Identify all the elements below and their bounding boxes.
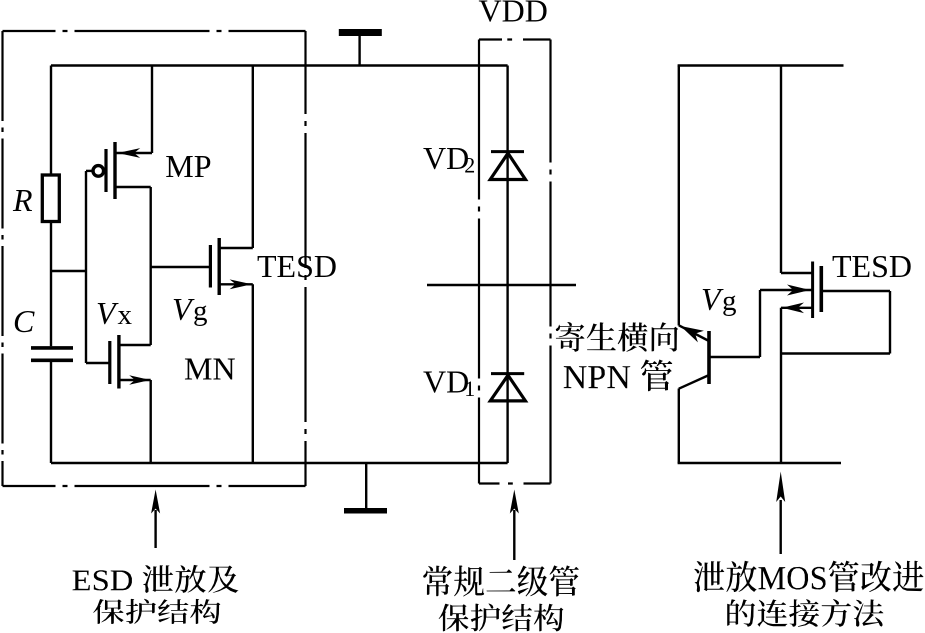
transistor TESD (right) source lead	[760, 289, 813, 291]
ground symbol (top, VDD tick) bar	[339, 29, 382, 36]
svg-text:TESD: TESD	[257, 248, 337, 284]
transistor TESD (right) gate bar	[819, 266, 823, 312]
transistor Q1 emitter arrow	[681, 326, 704, 342]
transistor TESD (right) source arrow	[787, 285, 810, 296]
transistor TESD (right) drain lead	[781, 272, 813, 274]
wire: MP gate stub to bubble	[86, 170, 92, 172]
wire: TESD gate lead from Vg node	[151, 266, 209, 268]
transistor MN channel bar	[117, 335, 120, 389]
wire: gate lead to the right	[821, 290, 890, 292]
dash-dot box: diode block (middle) left edge	[478, 40, 480, 484]
transistor MN source lead	[119, 379, 151, 381]
transistor Q1 parasitic NPN base bar	[707, 331, 711, 384]
wire: pad column vertical (through diodes)	[506, 66, 508, 464]
wire: MP source up to VDD rail	[151, 66, 153, 154]
svg-text:VD1: VD1	[423, 364, 475, 402]
svg-text:VDD: VDD	[479, 0, 548, 29]
pointer arrow (left block label) head	[151, 490, 160, 514]
wire: node Vg vertical (MP drain to MN drain)	[149, 187, 151, 345]
pointer arrow (left block label) stem	[154, 510, 156, 548]
wire: gate wrap right vertical	[889, 291, 891, 354]
ground symbol (bottom) bar	[344, 508, 387, 514]
diode VD1 cathode bar	[491, 372, 524, 375]
transistor TESD (right) bulk lead	[781, 307, 813, 309]
wire: left branch from rail to resistor R top	[50, 66, 52, 176]
dash-dot box: diode block (middle) top edge	[479, 38, 551, 40]
capacitor C bottom plate	[31, 358, 73, 362]
svg-text:C: C	[13, 303, 35, 339]
caption text: 的连接方法 (right block, line 2)	[727, 599, 883, 627]
dash-dot box: ESD clamp block (left) left edge	[1, 31, 3, 486]
wire: node Vx vertical (MP gate bubble down to MN gate)	[85, 171, 87, 363]
transistor Q1 emitter diagonal	[679, 325, 708, 340]
ground symbol (bottom) stem	[365, 463, 367, 509]
label text: NPN 管	[564, 360, 673, 392]
transistor MP gate bar	[104, 149, 107, 192]
wire: left vertical lower (NPN collector to bottom rail)	[678, 389, 680, 464]
wire: bottom VSS rail (left+middle)	[51, 462, 508, 464]
transistor MN source arrow	[129, 375, 150, 384]
wire: capacitor bottom to VSS rail	[50, 362, 52, 463]
transistor MP gate bubble	[93, 166, 104, 177]
diode VD2 cathode bar	[491, 150, 524, 153]
svg-text:VD2: VD2	[423, 140, 475, 178]
pointer arrow (right block label) head	[776, 472, 785, 503]
diode VD2 triangle	[490, 153, 525, 179]
svg-text:MP: MP	[165, 148, 211, 184]
svg-text:Vg: Vg	[172, 291, 208, 327]
wire: MN gate lead	[86, 362, 109, 364]
transistor TESD (left) source arrow	[230, 279, 252, 289]
transistor MP channel bar	[113, 142, 116, 199]
transistor TESD (right) bulk arrow	[782, 303, 804, 314]
transistor TESD (left) drain lead	[219, 247, 253, 249]
wire: left vertical upper (rail to NPN emitter)	[678, 66, 680, 326]
ground symbol (top, VDD tick) stem	[358, 36, 360, 66]
pointer arrow (middle block label) stem	[513, 510, 515, 560]
pointer arrow (right block label) stem	[780, 500, 782, 554]
wire: top VDD rail (left+middle)	[51, 64, 508, 66]
svg-text:TESD: TESD	[832, 248, 912, 284]
pointer arrow (middle block label) head	[510, 490, 519, 514]
transistor MP source lead (top)	[115, 152, 152, 154]
wire: node Vx tap (R-C node to gates column)	[51, 270, 86, 272]
transistor TESD (left) channel bar	[217, 238, 220, 295]
wire: TESD (right) drain vertical to top rail	[780, 66, 782, 274]
svg-text:Vx: Vx	[96, 295, 133, 331]
resistor R	[42, 175, 59, 222]
wire: bottom rail (right circuit)	[678, 462, 841, 464]
caption text: ESD 泄放及 (left block, line 1)	[73, 565, 239, 593]
dash-dot box: ESD clamp block (left) top edge	[3, 30, 306, 32]
transistor MP drain lead (bottom)	[115, 186, 151, 188]
wire: MN source down to VSS rail	[149, 380, 151, 463]
svg-text:MN: MN	[184, 351, 236, 387]
wire: TESD source down to VSS rail	[252, 284, 254, 463]
dash-dot box: diode block (middle) bottom edge	[479, 482, 551, 484]
wire: TESD drain up to VDD rail	[252, 66, 254, 249]
caption text: 泄放MOS管改进 (right block, line 1)	[694, 561, 923, 593]
transistor MN drain lead	[119, 344, 151, 346]
transistor MN gate bar	[108, 341, 111, 384]
wire: I/O pad horizontal line	[427, 284, 576, 286]
capacitor C top plate	[31, 346, 73, 350]
dash-dot box: ESD clamp block (left) bottom edge	[3, 485, 306, 487]
dash-dot box: diode block (middle) right edge	[549, 40, 551, 484]
wire: gate wrap return to source column	[781, 352, 890, 354]
wire: base to TESD source vertical	[759, 290, 761, 357]
wire: bulk/source column down to bottom rail	[780, 308, 782, 463]
svg-text:R: R	[12, 182, 33, 218]
wire: R bottom to capacitor top (node Vx column)	[50, 222, 52, 347]
dash-dot box: ESD clamp block (left) right edge	[304, 31, 306, 486]
wire: NPN base lead	[711, 356, 761, 358]
transistor TESD (right) channel bar	[811, 262, 814, 319]
wire: top rail (right circuit)	[678, 64, 844, 66]
caption text: 保护结构 (middle block, line 2)	[439, 603, 564, 631]
diode VD1 triangle	[490, 375, 525, 401]
transistor TESD (left) source lead	[219, 283, 253, 285]
transistor TESD (left) gate bar	[209, 245, 212, 288]
transistor MP source arrow	[118, 148, 140, 158]
label text: 寄生横向 (parasitic lateral)	[556, 322, 678, 352]
caption text: 保护结构 (left block, line 2)	[93, 599, 220, 624]
svg-text:Vg: Vg	[701, 281, 737, 317]
transistor Q1 collector diagonal	[679, 376, 708, 389]
caption text: 常规二级管 (middle block, line 1)	[423, 565, 579, 596]
